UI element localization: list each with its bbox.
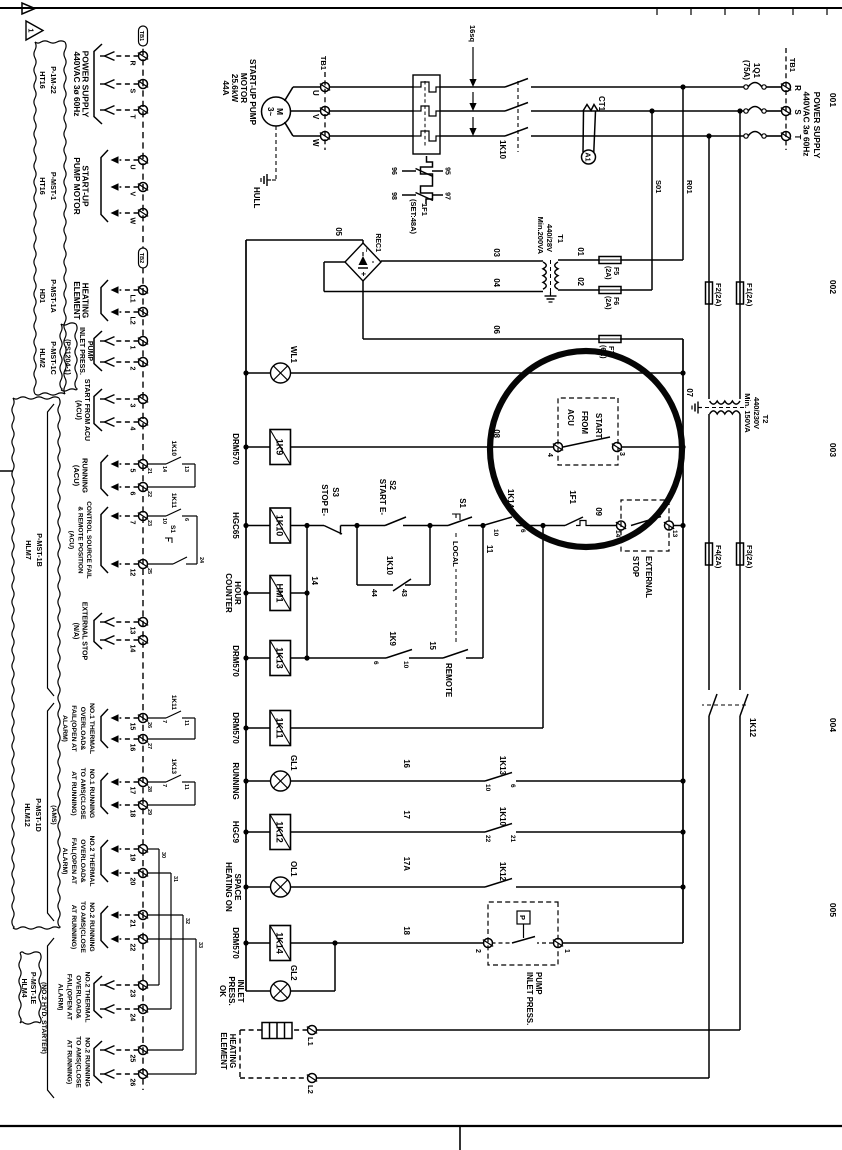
terminal 3 bbox=[139, 395, 148, 404]
svg-text:1F1: 1F1 bbox=[420, 203, 429, 216]
svg-text:R: R bbox=[129, 61, 136, 66]
svg-text:ELEMENT: ELEMENT bbox=[219, 1032, 228, 1069]
svg-text:1K12: 1K12 bbox=[498, 862, 507, 882]
svg-text:HGC9: HGC9 bbox=[231, 821, 240, 844]
svg-text:F1(2A): F1(2A) bbox=[745, 283, 754, 307]
svg-text:1K11: 1K11 bbox=[275, 717, 285, 738]
terminal block TB1 incoming R S T bbox=[785, 48, 787, 150]
bridge rectifier REC1 bbox=[345, 243, 381, 281]
svg-text:25: 25 bbox=[129, 1055, 136, 1063]
terminal 4 bbox=[139, 418, 148, 427]
svg-text:S: S bbox=[129, 89, 136, 94]
svg-text:23: 23 bbox=[146, 520, 152, 526]
svg-text:ACU: ACU bbox=[566, 409, 575, 426]
svg-text:MOTOR: MOTOR bbox=[239, 73, 248, 103]
svg-text:DRM570: DRM570 bbox=[231, 645, 240, 677]
T1 screen dashed bbox=[550, 260, 552, 292]
start button S2 bbox=[385, 517, 406, 526]
svg-text:HEATING ON: HEATING ON bbox=[224, 862, 233, 912]
svg-text:P-MST-1B: P-MST-1B bbox=[35, 533, 44, 567]
terminal U bbox=[321, 83, 330, 92]
phase wire S vertical bbox=[766, 110, 782, 112]
svg-text:1F1: 1F1 bbox=[568, 490, 577, 504]
svg-text:HD1: HD1 bbox=[38, 289, 47, 303]
mechanical link S1 remote dashed bbox=[455, 533, 457, 644]
T2 secondary wire bottom to heater L2 bbox=[708, 414, 710, 1078]
drawing frame left border bbox=[0, 7, 842, 9]
svg-text:95: 95 bbox=[444, 167, 451, 175]
group brace HEATING bbox=[101, 280, 108, 321]
wire T-F2 to transformer T2 bbox=[708, 136, 710, 399]
rung 1K10 main control bbox=[674, 525, 684, 527]
svg-text:5: 5 bbox=[129, 469, 136, 473]
wire 01 R01 down to T1 bbox=[621, 259, 683, 261]
svg-text:1: 1 bbox=[129, 346, 136, 350]
svg-text:17: 17 bbox=[402, 810, 411, 819]
svg-text:TO AMS(CLOSE: TO AMS(CLOSE bbox=[79, 901, 86, 953]
svg-text:OK: OK bbox=[218, 985, 227, 997]
svg-text:03: 03 bbox=[492, 248, 501, 257]
svg-text:START-UP PUMP: START-UP PUMP bbox=[248, 59, 257, 126]
svg-text:3: 3 bbox=[129, 404, 136, 408]
svg-text:7: 7 bbox=[129, 521, 136, 525]
svg-text:(2A): (2A) bbox=[604, 296, 611, 310]
frame tick bbox=[826, 8, 828, 15]
svg-text:22: 22 bbox=[484, 835, 491, 843]
svg-text:05: 05 bbox=[334, 227, 343, 236]
terminal 23 bbox=[139, 981, 148, 990]
cable tag wavy box 1 bbox=[64, 42, 66, 394]
svg-text:S1: S1 bbox=[169, 525, 176, 533]
positive control rail 07 bbox=[682, 339, 684, 943]
external stop contact terminals 13 14 bbox=[665, 521, 674, 530]
wire 11 local-remote link bbox=[482, 526, 484, 659]
svg-text:S3: S3 bbox=[331, 487, 340, 497]
rung 1K12 heating relay bbox=[516, 831, 683, 833]
group brace START-UP bbox=[101, 150, 108, 222]
svg-text:6: 6 bbox=[519, 529, 526, 533]
svg-text:P-MST-1E: P-MST-1E bbox=[29, 972, 36, 1005]
svg-text:PUMP: PUMP bbox=[86, 341, 93, 362]
svg-text:POWER SUPPLY: POWER SUPPLY bbox=[812, 92, 822, 159]
terminal 5 bbox=[139, 460, 148, 469]
svg-text:HT16: HT16 bbox=[38, 177, 47, 195]
frame tick bbox=[724, 8, 726, 15]
svg-text:440/28V: 440/28V bbox=[545, 224, 554, 252]
wire 03 T1 to rectifier bbox=[381, 260, 543, 262]
svg-text:1K9: 1K9 bbox=[388, 631, 397, 646]
node S01 junction bbox=[649, 108, 654, 113]
svg-text:TB2: TB2 bbox=[138, 253, 144, 263]
svg-text:T: T bbox=[793, 135, 802, 140]
terminal L1 bbox=[139, 286, 148, 295]
motor ground to hull bbox=[275, 126, 277, 180]
svg-text:30: 30 bbox=[160, 852, 166, 858]
svg-text:1K9: 1K9 bbox=[275, 439, 285, 456]
svg-text:TB1: TB1 bbox=[138, 31, 144, 41]
svg-text:11: 11 bbox=[183, 720, 189, 726]
svg-text:R01: R01 bbox=[685, 180, 694, 194]
svg-text:22: 22 bbox=[129, 944, 136, 952]
svg-text:4: 4 bbox=[129, 427, 136, 431]
svg-text:29: 29 bbox=[146, 809, 152, 815]
svg-text:28: 28 bbox=[146, 786, 152, 792]
svg-text:RUNNING: RUNNING bbox=[231, 762, 240, 799]
terminal 12 bbox=[139, 560, 148, 569]
heating element resistor bbox=[262, 1023, 292, 1039]
svg-text:V: V bbox=[129, 192, 136, 197]
svg-text:24: 24 bbox=[129, 1014, 136, 1022]
rung 1K9 start from ACU bbox=[622, 446, 684, 448]
terminal 1 bbox=[139, 337, 148, 346]
cable tag wavy box 2 bbox=[58, 398, 60, 928]
terminal 2 bbox=[139, 358, 148, 367]
terminal 6 bbox=[139, 483, 148, 492]
svg-text:R: R bbox=[793, 85, 802, 91]
current transformer CT1 bbox=[583, 105, 598, 112]
auxiliary contact 1K9 6-10 bbox=[386, 650, 412, 659]
svg-text:HGC65: HGC65 bbox=[231, 512, 240, 539]
svg-text:P-MST-1: P-MST-1 bbox=[49, 172, 58, 200]
svg-text:COUNTER: COUNTER bbox=[224, 573, 233, 613]
svg-text:START FROM ACU: START FROM ACU bbox=[83, 379, 90, 441]
motor M 3~ start-up pump motor bbox=[262, 97, 291, 126]
fuse F1(2A) bbox=[737, 282, 744, 304]
svg-text:96: 96 bbox=[390, 167, 397, 175]
svg-text:F3(2A): F3(2A) bbox=[745, 545, 754, 569]
node R01 junction bbox=[680, 84, 685, 89]
heating element dashed connection bbox=[292, 1029, 308, 1031]
cable group brace AMS bbox=[48, 703, 55, 921]
svg-text:F4(2A): F4(2A) bbox=[714, 545, 723, 569]
svg-text:FROM: FROM bbox=[580, 411, 589, 434]
svg-text:1: 1 bbox=[563, 949, 570, 953]
svg-text:NO.1 RUNNING: NO.1 RUNNING bbox=[88, 769, 95, 818]
wire 05 rectifier to negative rail bbox=[362, 240, 364, 243]
svg-text:25.6kW: 25.6kW bbox=[230, 74, 239, 102]
cable group brace P-MST-1B bbox=[48, 404, 55, 696]
terminal R bbox=[782, 83, 791, 92]
fuse F2(2A) bbox=[706, 282, 713, 304]
svg-text:CT1: CT1 bbox=[597, 96, 606, 112]
terminal R bbox=[139, 52, 148, 61]
svg-text:REMOTE: REMOTE bbox=[444, 663, 453, 698]
svg-text:F6: F6 bbox=[612, 297, 619, 305]
svg-text:TO AMS(CLOSE: TO AMS(CLOSE bbox=[79, 768, 86, 820]
group brace NO.2 THERMAL bbox=[94, 976, 102, 1018]
lamp WL1 bbox=[271, 363, 291, 383]
heating element terminal L2 bbox=[308, 1074, 317, 1083]
svg-text:16: 16 bbox=[402, 759, 411, 768]
negative control rail 05 bbox=[245, 240, 247, 991]
frame tick right bbox=[459, 1126, 461, 1150]
svg-text:002: 002 bbox=[828, 280, 838, 294]
terminal 26 bbox=[139, 1070, 148, 1079]
heater wire L1 drop bbox=[317, 1029, 741, 1031]
svg-text:DRM570: DRM570 bbox=[231, 712, 240, 744]
wire 06 rectifier to fuse F7 bbox=[362, 281, 364, 339]
svg-text:S1: S1 bbox=[458, 498, 467, 508]
svg-text:25: 25 bbox=[146, 568, 152, 574]
svg-text:1K11: 1K11 bbox=[170, 695, 177, 711]
svg-text:EXTERNAL STOP: EXTERNAL STOP bbox=[81, 602, 88, 661]
svg-text:(ACU): (ACU) bbox=[74, 400, 81, 420]
svg-text:S2: S2 bbox=[388, 480, 397, 490]
svg-text:ALARM): ALARM) bbox=[61, 848, 68, 875]
svg-text:33: 33 bbox=[197, 942, 203, 948]
group brace NO.1 THERMAL bbox=[101, 709, 108, 748]
wire S-F1 to transformer T2 bbox=[739, 111, 741, 399]
svg-text:6: 6 bbox=[372, 661, 379, 665]
svg-text:LOCAL: LOCAL bbox=[451, 541, 460, 567]
svg-text:04: 04 bbox=[492, 278, 501, 287]
svg-text:OL1: OL1 bbox=[289, 861, 298, 877]
relay coil 1K13 bbox=[270, 641, 291, 676]
svg-text:18: 18 bbox=[129, 810, 136, 818]
svg-text:FAIL(OPEN AT: FAIL(OPEN AT bbox=[70, 838, 77, 885]
terminal T bbox=[782, 132, 791, 141]
svg-text:1K10: 1K10 bbox=[498, 807, 507, 827]
terminal 18 bbox=[139, 801, 148, 810]
svg-text:PUMP MOTOR: PUMP MOTOR bbox=[72, 157, 82, 214]
svg-text:ALARM): ALARM) bbox=[61, 715, 68, 742]
svg-text:17A: 17A bbox=[402, 857, 411, 872]
svg-text:STOP E-: STOP E- bbox=[320, 484, 329, 516]
svg-text:6: 6 bbox=[509, 784, 516, 788]
group brace PUMP bbox=[94, 331, 102, 371]
svg-text:10: 10 bbox=[492, 529, 499, 537]
svg-text:22: 22 bbox=[146, 491, 152, 497]
svg-text:HLM2: HLM2 bbox=[38, 348, 47, 368]
svg-text:(ACU): (ACU) bbox=[72, 465, 81, 487]
svg-text:16: 16 bbox=[129, 744, 136, 752]
svg-text:7: 7 bbox=[161, 784, 167, 787]
svg-text:INLET PRESS.: INLET PRESS. bbox=[525, 972, 534, 1025]
svg-text:12: 12 bbox=[129, 569, 136, 577]
group brace NO.2 RUNNING bbox=[94, 1041, 102, 1083]
svg-text:W: W bbox=[311, 139, 320, 147]
svg-text:A1: A1 bbox=[584, 152, 593, 161]
terminal T bbox=[139, 106, 148, 115]
terminal S bbox=[139, 80, 148, 89]
svg-text:27: 27 bbox=[146, 743, 152, 749]
svg-text:OVERLOAD&: OVERLOAD& bbox=[75, 975, 82, 1019]
svg-text:(SET:48A): (SET:48A) bbox=[409, 199, 418, 235]
terminal V bbox=[321, 107, 330, 116]
heating element terminal L1 bbox=[308, 1026, 317, 1035]
svg-text:Min.200VA: Min.200VA bbox=[536, 217, 545, 255]
terminal 24 bbox=[139, 1005, 148, 1014]
remote selector contact bbox=[443, 650, 468, 659]
wire 14 junction line bbox=[306, 526, 308, 659]
selector switch S1 local contact bbox=[448, 517, 472, 526]
svg-text:START: START bbox=[594, 413, 603, 439]
svg-text:T1: T1 bbox=[556, 234, 565, 243]
svg-text:14: 14 bbox=[310, 576, 319, 585]
svg-text:26: 26 bbox=[146, 722, 152, 728]
transformer T1 secondary winding bbox=[543, 262, 546, 289]
svg-text:440VAC 3ø 60Hz: 440VAC 3ø 60Hz bbox=[802, 91, 812, 156]
svg-text:44: 44 bbox=[370, 589, 377, 597]
svg-text:CONTROL SOURCE FAIL: CONTROL SOURCE FAIL bbox=[85, 501, 92, 579]
wire S01 to fuse F6 bbox=[651, 111, 653, 290]
terminal W bbox=[139, 209, 148, 218]
svg-text:3: 3 bbox=[618, 452, 625, 456]
svg-text:98: 98 bbox=[390, 192, 397, 200]
svg-text:U: U bbox=[311, 90, 320, 96]
svg-text:AT RUNNING): AT RUNNING) bbox=[70, 771, 77, 815]
svg-text:SPACE: SPACE bbox=[233, 874, 242, 902]
svg-text:1K10: 1K10 bbox=[385, 556, 394, 576]
svg-text:F5: F5 bbox=[612, 267, 619, 275]
svg-text:1K14: 1K14 bbox=[275, 932, 285, 954]
svg-text:ALARM): ALARM) bbox=[57, 984, 64, 1011]
svg-text:44A: 44A bbox=[221, 80, 230, 95]
svg-text:(N/A): (N/A) bbox=[72, 623, 79, 640]
svg-text:1K12: 1K12 bbox=[275, 821, 285, 843]
heater contactor 1K12 contacts bbox=[702, 690, 747, 716]
svg-text:11: 11 bbox=[183, 784, 189, 790]
svg-text:T: T bbox=[129, 115, 136, 120]
heater wire L2 drop bbox=[317, 1077, 710, 1079]
wire 33 bridging terminals 22-26 bbox=[148, 938, 197, 940]
svg-text:10: 10 bbox=[161, 518, 167, 524]
terminal 17 bbox=[139, 778, 148, 787]
thermal overload relay 1F1 block bbox=[413, 75, 440, 154]
svg-text:GL2: GL2 bbox=[289, 965, 298, 981]
svg-text:RUNNING: RUNNING bbox=[81, 458, 90, 493]
svg-text:(AMS): (AMS) bbox=[50, 805, 57, 825]
svg-text:STOP: STOP bbox=[631, 556, 640, 577]
frame tick bottom bbox=[0, 470, 13, 472]
fuse F7(6A) bbox=[599, 336, 621, 343]
terminal 16 bbox=[139, 735, 148, 744]
svg-text:PUMP: PUMP bbox=[534, 972, 543, 995]
terminal 14 bbox=[139, 636, 148, 645]
group brace NO.2 RUNNING bbox=[101, 906, 108, 948]
terminal 21 bbox=[139, 911, 148, 920]
svg-text:21: 21 bbox=[146, 468, 152, 474]
frame tick bbox=[758, 8, 760, 15]
node S to F1 bbox=[737, 108, 742, 113]
terminal W bbox=[321, 132, 330, 141]
stop button S3 normally closed bbox=[341, 525, 358, 527]
terminal 22 bbox=[139, 935, 148, 944]
rung GL1 running lamp bbox=[516, 780, 683, 782]
svg-text:17: 17 bbox=[129, 787, 136, 795]
svg-text:(2A): (2A) bbox=[604, 266, 611, 280]
terminal block TB1 motor side bbox=[324, 72, 326, 150]
pump inlet press dashed box bbox=[488, 902, 558, 965]
phase wire T vertical bbox=[766, 135, 782, 137]
note 1 triangle bbox=[26, 21, 43, 40]
svg-text:HEATING: HEATING bbox=[81, 283, 90, 318]
svg-text:M: M bbox=[275, 108, 285, 115]
frame tick bbox=[656, 8, 658, 15]
svg-text:10: 10 bbox=[402, 661, 409, 669]
svg-text:FAIL(OPEN AT: FAIL(OPEN AT bbox=[70, 705, 77, 752]
hand drawn highlight circle around START FROM ACU bbox=[490, 351, 682, 547]
svg-text:1K10: 1K10 bbox=[170, 440, 177, 456]
svg-text:INLET: INLET bbox=[236, 979, 245, 1002]
svg-text:14: 14 bbox=[129, 645, 136, 653]
svg-text:WL1: WL1 bbox=[289, 346, 298, 363]
external stop dashed box bbox=[621, 500, 669, 551]
terminal 15 bbox=[139, 714, 148, 723]
monitor contact 1K11 bridging terminals 15-16 bbox=[148, 717, 167, 719]
svg-text:21: 21 bbox=[509, 835, 516, 843]
terminal 25 bbox=[139, 1046, 148, 1055]
svg-text:P-MST-1A: P-MST-1A bbox=[49, 279, 58, 313]
svg-text:TB1: TB1 bbox=[788, 58, 797, 72]
terminal 20 bbox=[139, 869, 148, 878]
hour counter coil HM1 bbox=[291, 592, 307, 594]
frame tick bbox=[690, 8, 692, 15]
svg-text:INLET PRESS.: INLET PRESS. bbox=[78, 327, 85, 375]
wire R01 to fuse F5 bbox=[682, 87, 684, 260]
group brace START FROM ACU bbox=[94, 389, 102, 431]
rung GL2 inlet press ok lamp bbox=[334, 943, 336, 991]
node T to F2 bbox=[706, 133, 711, 138]
lamp OL1 bbox=[271, 877, 291, 897]
transformer T2 secondary winding bbox=[710, 411, 740, 414]
svg-text:HEATING: HEATING bbox=[228, 1034, 237, 1069]
svg-text:11: 11 bbox=[485, 545, 494, 554]
frame tick bbox=[792, 8, 794, 15]
svg-text:FAIL(OPEN AT: FAIL(OPEN AT bbox=[66, 974, 73, 1021]
pressure switch P symbol bbox=[517, 911, 530, 924]
svg-text:NO.2 THERMAL: NO.2 THERMAL bbox=[84, 972, 91, 1023]
fuse F3(2A) bbox=[737, 543, 744, 565]
svg-text:L1: L1 bbox=[129, 295, 136, 303]
auxiliary contact 1K12 bbox=[485, 879, 512, 888]
phase wire R vertical bbox=[766, 86, 782, 88]
monitor contact 1K10 13-14 bridging terminals 5-6 bbox=[148, 463, 167, 465]
start-from-ACU dashed box bbox=[558, 398, 618, 465]
svg-text:10: 10 bbox=[484, 784, 491, 792]
terminal strip TB1 marker bbox=[139, 26, 148, 46]
svg-text:16sq: 16sq bbox=[468, 25, 477, 43]
svg-text:003: 003 bbox=[828, 443, 838, 457]
self hold branch 1K10 43-44 bbox=[429, 526, 431, 586]
svg-text:V: V bbox=[311, 114, 320, 120]
group brace RUNNING bbox=[101, 455, 108, 496]
svg-text:REC1: REC1 bbox=[374, 233, 381, 252]
svg-text:97: 97 bbox=[444, 192, 451, 200]
svg-text:1Q1: 1Q1 bbox=[752, 63, 761, 79]
terminal 19 bbox=[139, 845, 148, 854]
thermal trip contact 1F1 95-96 bbox=[576, 521, 590, 526]
svg-text:6: 6 bbox=[129, 492, 136, 496]
svg-text:HLM4: HLM4 bbox=[20, 978, 27, 997]
svg-text:NO.2 RUNNING: NO.2 RUNNING bbox=[88, 902, 95, 951]
svg-text:S01: S01 bbox=[654, 180, 663, 193]
svg-text:DRM570: DRM570 bbox=[231, 927, 240, 959]
svg-text:1K11: 1K11 bbox=[170, 493, 177, 509]
svg-text:HULL: HULL bbox=[252, 187, 261, 208]
svg-text:HM1: HM1 bbox=[275, 583, 285, 602]
svg-text:Min. 150VA: Min. 150VA bbox=[743, 393, 752, 433]
svg-text:005: 005 bbox=[828, 903, 838, 917]
svg-text:TB1: TB1 bbox=[319, 56, 328, 70]
wire 31 bridging terminals 20-24 bbox=[148, 872, 172, 874]
svg-text:P-MST-1C: P-MST-1C bbox=[49, 341, 58, 375]
svg-text:1K12: 1K12 bbox=[748, 718, 757, 738]
svg-text:U: U bbox=[129, 165, 136, 170]
svg-text:START E-: START E- bbox=[378, 479, 387, 516]
svg-text:440/230V: 440/230V bbox=[752, 397, 761, 429]
rung 1K11 running relay bbox=[542, 526, 544, 729]
